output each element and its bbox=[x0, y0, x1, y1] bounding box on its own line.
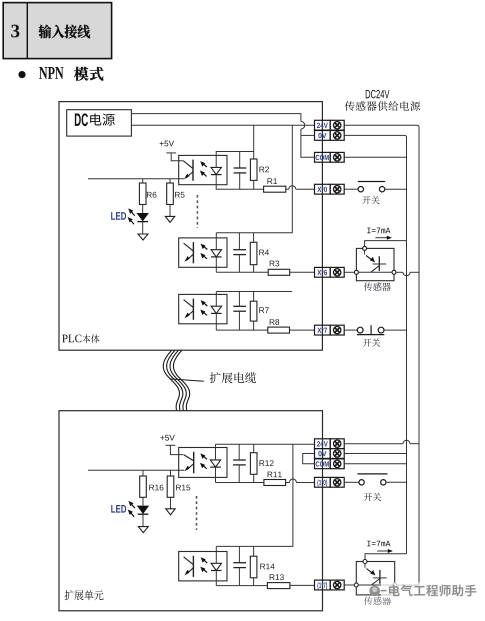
terminal X*7 bbox=[315, 325, 345, 335]
wire R8 to X*7 terminal bbox=[290, 329, 315, 331]
wire 0V row to bus B (exp) bbox=[344, 453, 406, 455]
wire 24V rail (exp) bbox=[216, 443, 315, 445]
resistor R4 bbox=[250, 233, 257, 272]
label R16 bbox=[149, 485, 163, 491]
label R3 bbox=[270, 261, 280, 267]
switch S3 bbox=[358, 474, 388, 485]
label R13 bbox=[270, 574, 284, 580]
U3 phototransistor bbox=[184, 299, 194, 320]
switch S2 pushbutton bbox=[357, 325, 384, 334]
ch1 bottom rail (exp) bbox=[216, 482, 264, 484]
watermark text 电气工程师助手 bbox=[389, 585, 477, 597]
wire DC+ to 0V/COM bbox=[131, 114, 314, 158]
resistor R6 bbox=[139, 179, 146, 205]
wire 0V-COM jumper (exp) bbox=[303, 454, 315, 464]
optocoupler U1 box bbox=[179, 155, 227, 184]
capacitor C4 bbox=[233, 444, 246, 482]
wire sensor T2 supply to bus B bbox=[365, 554, 407, 560]
optocoupler U2 box bbox=[179, 238, 227, 267]
resistor R14 bbox=[250, 546, 257, 585]
terminal 1*0 bbox=[315, 477, 345, 487]
ch3 bottom rail bbox=[216, 329, 267, 331]
heading NPN 模式 bbox=[39, 67, 103, 81]
wire sensor T2 out to bus A bbox=[397, 584, 419, 586]
U5 phototransistor bbox=[184, 556, 194, 577]
terminal 24V (exp) bbox=[315, 439, 345, 449]
capacitor C2 bbox=[233, 233, 246, 272]
sensor T2 pins bbox=[354, 560, 396, 588]
LED indicator diode bbox=[137, 205, 149, 222]
wire R13 to terminal bbox=[290, 584, 315, 586]
optocoupler U3 box bbox=[179, 294, 227, 323]
U4 LED bbox=[210, 460, 221, 467]
LED indicator arrows bbox=[128, 208, 135, 224]
label R1 bbox=[267, 178, 277, 184]
U1 phototransistor bbox=[183, 160, 193, 181]
resistor R12 bbox=[250, 444, 257, 482]
wire 1*7 to sensor T2 bbox=[344, 584, 354, 586]
current arrow (top) bbox=[375, 236, 392, 240]
wire X*6 to sensor T1 bbox=[344, 271, 354, 273]
label 开关 S1 bbox=[362, 196, 379, 204]
U3 light arrows bbox=[200, 300, 207, 315]
wire 24V bus down to ch2 rail (exp) bbox=[216, 444, 293, 546]
wire 24V row to bus A (exp, hop) bbox=[344, 440, 419, 443]
terminal X*0 bbox=[315, 184, 345, 194]
U3 led column bbox=[215, 292, 217, 331]
wire R3 to X*6 terminal bbox=[290, 271, 315, 273]
resistor R2 bbox=[250, 159, 257, 189]
optocoupler U5 box bbox=[179, 552, 227, 581]
wire switch S3 to bus B bbox=[386, 481, 407, 483]
wire R1 to X*0 terminal bbox=[286, 186, 315, 189]
header title 输入接线 bbox=[39, 25, 91, 39]
wire sensor T1 supply to bus B bbox=[365, 241, 407, 247]
wire switch S1 to bus B bbox=[385, 188, 407, 190]
PLC unit box bbox=[59, 102, 322, 351]
wire switch S2 to bus B bbox=[384, 329, 407, 331]
U4 led column bbox=[215, 444, 217, 482]
sensor T1 pins bbox=[354, 246, 396, 274]
U2 LED bbox=[211, 250, 222, 257]
resistor R15 bbox=[167, 470, 174, 497]
watermark backdrop bbox=[381, 583, 476, 599]
label 传感器 T1 bbox=[364, 282, 391, 291]
label R6 bbox=[147, 192, 157, 198]
wire 0V to bus B bbox=[344, 135, 406, 553]
U2 phototransistor bbox=[184, 242, 194, 263]
wire 24V rail drop to R2 bbox=[253, 125, 255, 159]
label R14 bbox=[260, 564, 274, 570]
terminal 0V (exp) bbox=[315, 449, 345, 459]
sensor T2 transistor bbox=[358, 564, 392, 586]
terminal X*6 bbox=[315, 267, 345, 277]
+5V supply tick and lead bbox=[166, 153, 183, 161]
label 开关 S2 bbox=[363, 338, 380, 346]
label DC电源 bbox=[75, 113, 115, 126]
wire 24V bus down to ch2 rail bbox=[216, 125, 292, 233]
DC power supply box bbox=[67, 110, 132, 136]
label 扩展单元 bbox=[65, 590, 104, 600]
wire R11 to terminal (hop) bbox=[286, 479, 315, 483]
U4 phototransistor bbox=[184, 452, 194, 474]
sensor T1 box bbox=[356, 248, 394, 280]
channel dots separator bbox=[196, 195, 198, 228]
U5 led column bbox=[215, 546, 217, 585]
current arrow (bottom) bbox=[377, 549, 393, 553]
bullet bbox=[18, 71, 25, 78]
label R8 bbox=[270, 319, 280, 325]
terminal 0V bbox=[315, 131, 345, 141]
capacitor C3 bbox=[233, 292, 246, 331]
label R4 bbox=[259, 250, 269, 256]
U4 light arrows bbox=[200, 453, 207, 468]
expansion unit box bbox=[59, 411, 323, 611]
wire 1*0 to switch S3 bbox=[344, 481, 359, 483]
wire sensor T1 out to bus A (hop) bbox=[396, 272, 419, 276]
label R7 bbox=[259, 307, 269, 313]
resistor R5 bbox=[167, 179, 174, 205]
LED indicator diode (exp) bbox=[137, 497, 149, 514]
emitter wire bbox=[88, 178, 184, 180]
label I=7mA (top) bbox=[367, 228, 390, 234]
U5 light arrows bbox=[200, 557, 207, 572]
label LED (exp) bbox=[111, 505, 126, 513]
capacitor C5 bbox=[233, 546, 246, 585]
R5 ground arrow bbox=[165, 205, 174, 223]
LED ground arrow (exp) bbox=[138, 514, 148, 532]
label R11 bbox=[268, 472, 282, 478]
LED ground arrow bbox=[138, 222, 148, 240]
wire COM to bus B bbox=[344, 156, 406, 158]
U1 LED bbox=[211, 167, 222, 174]
resistor R11 bbox=[264, 480, 286, 486]
resistor R7 bbox=[250, 292, 257, 331]
channel dots separator (exp) bbox=[196, 496, 198, 530]
ch3 top rail bbox=[216, 291, 292, 293]
label 扩展电缆 bbox=[210, 372, 257, 383]
terminal COM bbox=[315, 152, 345, 162]
resistor R3 bbox=[268, 269, 290, 275]
ch2 bottom rail bbox=[216, 271, 268, 273]
U3 LED bbox=[211, 306, 222, 313]
label 开关 S3 bbox=[364, 493, 381, 501]
section header box bbox=[3, 3, 111, 59]
LED indicator arrows (exp) bbox=[128, 501, 135, 517]
wire DC- to 24V terminal bbox=[131, 124, 314, 126]
ch2 bottom rail (exp) bbox=[216, 585, 267, 587]
capacitor C1 bbox=[234, 152, 247, 190]
U2 light arrows bbox=[200, 244, 207, 259]
R15 ground arrow (exp) bbox=[166, 497, 175, 515]
expansion cable bundle bbox=[163, 350, 204, 411]
label R15 bbox=[176, 485, 190, 491]
wire X*7 to switch S2 bbox=[344, 329, 357, 331]
header number 3 bbox=[11, 25, 19, 38]
wire 24V to bus A bbox=[344, 125, 419, 585]
resistor R16 bbox=[140, 470, 147, 497]
label PLC本体 bbox=[62, 334, 99, 343]
label R12 bbox=[259, 460, 273, 466]
wire COM row to bus B (exp) bbox=[344, 463, 406, 465]
label R2 bbox=[259, 167, 269, 173]
terminal COM (exp) bbox=[315, 459, 345, 469]
label 传感器供给电源 bbox=[345, 101, 420, 111]
+5V label (exp) bbox=[160, 435, 174, 441]
resistor R1 bbox=[264, 186, 286, 192]
switch S1 bbox=[358, 182, 385, 192]
terminal 24V bbox=[315, 120, 345, 130]
+5V label bbox=[160, 141, 174, 147]
watermark logo bbox=[369, 586, 386, 597]
label DC24V bbox=[366, 90, 390, 99]
sensor T2 box bbox=[356, 562, 394, 595]
label I=7mA (bottom) bbox=[367, 541, 390, 547]
+5V tick and lead (exp) bbox=[166, 445, 184, 454]
label 传感器 T2 bbox=[364, 597, 391, 606]
resistor R13 bbox=[267, 583, 290, 589]
wire X*0 to switch bbox=[344, 188, 358, 190]
ch1 bottom rail bbox=[216, 175, 264, 190]
label LED bbox=[111, 212, 126, 220]
optocoupler U4 box bbox=[179, 448, 227, 478]
U1 light arrows bbox=[200, 161, 207, 176]
ch1 top rail bbox=[216, 152, 254, 168]
terminal 1*7 bbox=[315, 580, 345, 590]
sensor T1 transistor bbox=[358, 250, 392, 272]
resistor R8 bbox=[268, 327, 290, 333]
label R5 bbox=[175, 192, 185, 198]
U2 led column bbox=[215, 233, 217, 272]
emitter wire (exp) bbox=[88, 469, 185, 471]
U5 LED bbox=[211, 563, 222, 570]
